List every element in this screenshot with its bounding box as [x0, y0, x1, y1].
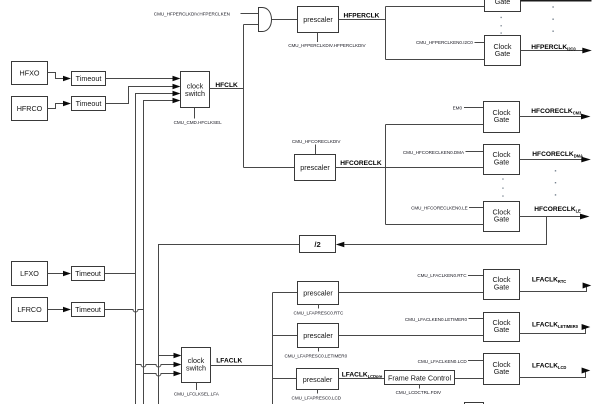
oscillator LFRCO	[12, 298, 48, 322]
arrowhead into /2 divider	[336, 242, 345, 248]
svg-text:CMU_LFCLKSEL.LFA: CMU_LFCLKSEL.LFA	[174, 392, 220, 397]
svg-text:CMU_LFAPRESC0.LCD: CMU_LFAPRESC0.LCD	[292, 396, 342, 401]
wire /2 line into LFA switch input1	[159, 355, 175, 357]
prescaler LETIMER0	[298, 324, 339, 348]
svg-text:CMU_LFAPRESC0.LETIMER0: CMU_LFAPRESC0.LETIMER0	[284, 354, 347, 359]
wire HFRCO to Timeout	[48, 104, 64, 109]
wire DMA gate output	[520, 159, 582, 161]
arrowhead HFCORECLK_LE	[580, 214, 590, 220]
wire branch to top clock gate	[386, 6, 485, 8]
clock switch HF	[181, 72, 210, 108]
wire LFXO bus top into HF switch input3	[136, 94, 174, 98]
svg-text:CMU_HFPERCLKDIV.HFPERCLKDIV: CMU_HFPERCLKDIV.HFPERCLKDIV	[288, 43, 366, 48]
clock gate RTC	[484, 270, 520, 300]
arrowhead into Timeout HFRCO	[63, 101, 71, 107]
arrowhead input2 HF switch	[173, 84, 181, 90]
clock gate bottom (cut)	[465, 403, 484, 404]
wire LETIMER prescaler stub	[318, 348, 320, 352]
arrowhead into Timeout LFRCO	[63, 307, 71, 313]
wire HFCLK to AND gate lower input	[244, 24, 259, 26]
wire HFCLK output	[210, 88, 244, 90]
wire /2 output to LF area	[159, 245, 300, 404]
wire CM3 gate output	[520, 116, 582, 118]
arrowhead LFACLK_LETIMER0	[582, 324, 591, 330]
arrowhead input1 HF switch	[173, 76, 181, 82]
wire HFCORECLK main line to DMA gate	[336, 167, 484, 169]
svg-text:Timeout: Timeout	[75, 305, 101, 314]
wire LCD prescaler stub	[317, 390, 319, 394]
wire HFCORECLK bus to LE gate	[386, 224, 484, 226]
ellipsis dots HFCORECLK right column	[555, 170, 556, 195]
arrowhead LFA input2	[174, 362, 182, 368]
svg-text:Gate: Gate	[495, 0, 511, 6]
svg-text:EM0: EM0	[453, 106, 463, 111]
wire HFCORECLKDIV stub	[315, 145, 317, 155]
svg-text:Gate: Gate	[494, 157, 510, 166]
wire LFXO into LFA switch input2 with hops	[136, 365, 175, 368]
wire HFCORECLK_LE branch down to /2	[344, 217, 546, 245]
svg-text:Frame Rate Control: Frame Rate Control	[388, 373, 452, 382]
svg-text:CMU_HFPERCLKEN0.I2C0: CMU_HFPERCLKEN0.I2C0	[416, 40, 473, 45]
wire branch to CM3 gate	[386, 124, 484, 126]
svg-text:/2: /2	[314, 240, 320, 249]
svg-text:CMU_LFACLKEN0.RTC: CMU_LFACLKEN0.RTC	[417, 273, 467, 278]
svg-text:Gate: Gate	[494, 282, 510, 291]
ellipsis dots HFPERCLK left column	[501, 17, 502, 34]
clock switch LFA	[182, 348, 211, 383]
clock gate LCD	[484, 354, 520, 385]
wire HFCLK vertical bus	[243, 25, 245, 168]
svg-text:CMU_HFPERCLKDIV.HFPERCLKEN: CMU_HFPERCLKDIV.HFPERCLKEN	[154, 11, 230, 16]
arrowhead LFACLK_LCD	[582, 368, 591, 374]
timeout LFXO	[72, 267, 105, 281]
svg-text:CMU_HFCORECLKDIV: CMU_HFCORECLKDIV	[292, 139, 341, 144]
clock gate HFPERCLK top (cut)	[485, 0, 521, 12]
wire LFXO vertical bus	[135, 94, 137, 404]
svg-text:LFACLK: LFACLK	[216, 357, 242, 364]
oscillator HFRCO	[12, 97, 48, 121]
wire branch to RTC prescaler	[273, 292, 298, 294]
arrowhead HFCORECLK_CM3	[581, 114, 591, 120]
svg-text:switch: switch	[185, 89, 205, 98]
wire HFPERCLK to I2C0 gate	[386, 59, 485, 61]
svg-text:HFCLK: HFCLK	[215, 82, 238, 89]
svg-text:CMU_LFACLKEN0.LETIMER0: CMU_LFACLKEN0.LETIMER0	[405, 317, 468, 322]
wire I2C0 gate output	[521, 50, 584, 52]
timeout LFRCO	[72, 303, 105, 317]
svg-text:CMU_CMD.HFCLKSEL: CMU_CMD.HFCLKSEL	[174, 120, 222, 125]
svg-text:CMU_LFAPRESC0.RTC: CMU_LFAPRESC0.RTC	[294, 310, 344, 315]
oscillator HFXO	[12, 62, 48, 85]
svg-text:switch: switch	[186, 364, 206, 373]
svg-text:Gate: Gate	[494, 325, 510, 334]
svg-text:LFRCO: LFRCO	[17, 305, 42, 314]
svg-text:HFRCO: HFRCO	[17, 104, 43, 113]
clock gate LE	[484, 202, 520, 232]
oscillator LFXO	[12, 262, 48, 286]
arrowhead HFCORECLK_DMA	[581, 157, 591, 163]
svg-text:Timeout: Timeout	[76, 99, 102, 108]
svg-text:HFCORECLKLE: HFCORECLKLE	[534, 206, 581, 213]
svg-text:CMU_LCDCTRL.FDIV: CMU_LCDCTRL.FDIV	[396, 390, 442, 395]
svg-text:CMU_HFCORECLKEN0.DMA: CMU_HFCORECLKEN0.DMA	[403, 150, 465, 155]
wire branch to LETIMER prescaler	[273, 335, 298, 337]
svg-text:Gate: Gate	[494, 367, 510, 376]
arrowhead input4 HF switch	[173, 98, 181, 104]
wire HFPERCLK vertical bus	[385, 7, 387, 60]
wire HFCORECLK vertical bus	[385, 125, 387, 225]
wire LCD enable	[468, 360, 484, 362]
wire LFACLK output	[211, 365, 273, 367]
wire LE gate output	[520, 216, 581, 218]
wire LFRCO bus top into HF switch input4	[144, 101, 174, 105]
wire RTC prescaler stub	[318, 305, 320, 309]
svg-text:HFPERCLK: HFPERCLK	[344, 13, 380, 20]
clock gate CM3	[484, 102, 520, 133]
ellipsis dots HFPERCLK right column	[552, 6, 553, 32]
wire LFACLK vertical bus	[272, 293, 274, 404]
wire Timeout HFXO to clock switch	[106, 78, 174, 80]
wire Timeout HFRCO to clock switch input2	[106, 87, 174, 104]
svg-text:LFXO: LFXO	[20, 269, 39, 278]
svg-text:CMU_HFCORECLKEN0.LE: CMU_HFCORECLKEN0.LE	[411, 205, 468, 210]
arrowhead LFA input1	[174, 353, 182, 359]
svg-text:prescaler: prescaler	[303, 331, 333, 340]
arrowhead into Timeout HFXO	[63, 76, 71, 82]
wire LETIMER gate output with step-up arrow	[520, 327, 586, 333]
svg-text:Gate: Gate	[494, 115, 510, 124]
wire HFPERCLKDIV stub	[317, 33, 319, 43]
wire HFCLKSEL stub	[194, 108, 196, 119]
wire HFCLK to HFCORECLK prescaler	[244, 167, 295, 169]
wire enable to AND gate	[241, 13, 259, 15]
timeout HFRCO	[72, 97, 106, 111]
wire RTC prescaler to gate	[339, 292, 484, 294]
wire RTC gate output with step-up arrow	[520, 286, 587, 292]
wire LFRCO vertical bus	[143, 101, 145, 404]
svg-text:Gate: Gate	[495, 49, 511, 58]
arrowhead LFACLK_RTC	[583, 283, 592, 289]
wire HFXO to Timeout	[48, 73, 64, 79]
svg-text:CMU_LFACLKEN0.LCD: CMU_LFACLKEN0.LCD	[418, 359, 468, 364]
svg-text:prescaler: prescaler	[303, 375, 333, 384]
arrowhead LFA input3	[174, 371, 182, 377]
timeout HFXO	[72, 72, 106, 86]
svg-text:Timeout: Timeout	[75, 269, 101, 278]
wire I2C0 enable	[475, 42, 485, 44]
prescaler LCD	[297, 369, 339, 390]
svg-text:Gate: Gate	[494, 215, 510, 224]
wire AND gate to prescaler	[272, 19, 298, 21]
wire Frame Rate Control to LCD gate	[455, 378, 484, 380]
svg-text:HFXO: HFXO	[20, 69, 40, 78]
clock gate DMA	[484, 145, 520, 175]
wire FDIV stub	[419, 384, 421, 389]
arrowhead input3 HF switch	[173, 91, 181, 97]
svg-text:prescaler: prescaler	[303, 15, 333, 24]
clock gate I2C0	[485, 36, 521, 66]
svg-text:prescaler: prescaler	[300, 163, 330, 172]
wire DMA enable	[466, 151, 484, 153]
svg-text:HFCORECLK: HFCORECLK	[340, 160, 382, 167]
svg-text:prescaler: prescaler	[303, 289, 333, 298]
arrowhead into Timeout LFXO	[63, 271, 71, 277]
wire EM0 enable	[464, 107, 484, 109]
prescaler HFCORECLK	[295, 155, 336, 181]
prescaler HFPERCLK	[298, 7, 339, 33]
wire prescaler to HFPERCLK bus	[339, 19, 386, 21]
wire Timeout LFXO to LFXO bus	[105, 273, 136, 275]
divider /2	[300, 236, 336, 253]
wire LFRCO to Timeout	[48, 309, 64, 311]
wire LFCLKSEL stub	[196, 383, 198, 391]
wire RTC enable	[468, 275, 484, 277]
svg-text:Timeout: Timeout	[76, 74, 102, 83]
frame rate control box	[385, 371, 455, 385]
AND gate HFPERCLK enable	[259, 8, 272, 32]
wire branch to LCD prescaler	[273, 378, 297, 380]
wire LFRCO into LFA switch input3 with hop	[144, 374, 175, 377]
wire LCD gate output with step-up arrow	[520, 371, 586, 377]
ellipsis dots HFCORECLK left column	[502, 178, 503, 196]
wire LETIMER prescaler to gate	[339, 335, 484, 337]
wire LETIMER enable	[469, 318, 484, 320]
wire Timeout LFRCO to LFRCO bus with hop over LFXO bus	[105, 310, 144, 313]
clock gate LETIMER0	[484, 313, 520, 342]
wire LCD prescaler to Frame Rate Control	[339, 378, 385, 380]
wire top clock gate output	[521, 0, 592, 2]
arrowhead HFPERCLK_I2C0	[582, 48, 592, 54]
wire LE enable	[469, 207, 484, 209]
prescaler RTC	[298, 282, 339, 305]
wire LFXO to Timeout	[48, 273, 64, 275]
